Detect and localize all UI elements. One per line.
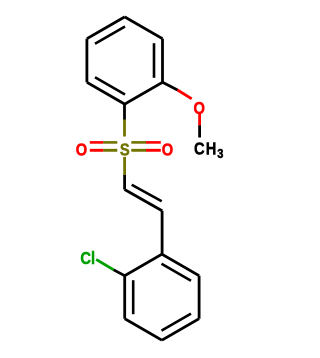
bond S-C7 carbon half (123, 175, 126, 190)
bond C4-S sulfur half (123, 120, 126, 137)
bond C4-S carbon half (123, 104, 126, 119)
atom O3 sulfonyl right oxygen label (162, 140, 173, 159)
atom O1 methoxy oxygen label (193, 99, 204, 118)
benzene ring B bond C12-C13 (bottom-left slant) (125, 319, 162, 341)
benzene ring B bond C13-C14 (left vertical, double) (123, 276, 126, 319)
benzene ring B bond C11-C12 (bottom-right slant, double) (162, 319, 199, 341)
bond S=O3 main line sulfur half (131, 149, 146, 152)
bond S=O3 main line oxygen half (146, 149, 161, 152)
svg-text:3: 3 (217, 146, 223, 161)
benzene ring A bond C6-C1 (top-left slant, double) (87, 17, 125, 39)
atom CH3 subscript 3 (217, 146, 223, 161)
benzene ring A bond C2-C3 (right vertical, double) (161, 39, 164, 83)
bond O1-CH3 carbon half (198, 125, 201, 137)
bond C14-Cl chlorine half (96, 259, 113, 269)
benzene ring B bond C9-C10 (top-right slant, double) (162, 254, 199, 276)
benzene ring B bond C10-C11 (right vertical) (198, 276, 201, 319)
atom Cl chlorine label (80, 249, 91, 268)
bond S=O2 main line oxygen half (90, 149, 104, 152)
bond S=O2 second line sulfur half (103, 141, 117, 144)
bond S=O3 second line sulfur half (131, 141, 146, 144)
bond C3-O1 oxygen half (178, 90, 192, 99)
svg-text:C: C (194, 139, 205, 158)
benzene ring A bond C2-C3 inner double line (153, 43, 156, 78)
svg-text:S: S (120, 140, 130, 159)
bond S=O3 second line oxygen half (146, 141, 161, 144)
svg-text:O: O (76, 140, 87, 159)
benzene ring B bond C9-C10 inner double line (162, 264, 192, 281)
bond S=O2 main line sulfur half (103, 149, 117, 152)
benzene ring A bond C3-C4 (bottom-right slant) (125, 82, 163, 104)
vinyl double bond C7=C8 second line (132, 185, 162, 202)
svg-text:l: l (91, 249, 95, 268)
svg-text:O: O (162, 140, 173, 159)
benzene ring B bond C11-C12 inner double line (162, 314, 192, 331)
benzene ring A bond C4-C5 inner double line (95, 77, 125, 94)
bond C8-C9 vertical (161, 211, 164, 254)
atom CH3 methyl label (194, 139, 205, 158)
vinyl double bond C7=C8 main line (125, 190, 163, 211)
bond S-C7 sulfur half (123, 157, 126, 175)
bond C14-Cl carbon half (114, 270, 125, 276)
bond S=O2 second line oxygen half (90, 141, 104, 144)
benzene ring A bond C4-C5 (bottom-left slant, double) (87, 82, 125, 104)
svg-text:O: O (193, 99, 204, 118)
atom O2 sulfonyl left oxygen label (76, 140, 87, 159)
benzene ring A bond C1-C2 (top-right slant) (125, 17, 163, 39)
svg-text:H: H (206, 139, 217, 158)
bond C3-O1 carbon half (163, 82, 178, 90)
atom S sulfonyl sulfur label (120, 140, 130, 159)
benzene ring A bond C6-C1 inner double line (95, 27, 125, 44)
benzene ring B bond C13-C14 inner double line (132, 280, 135, 314)
benzene ring B bond C14-C9 (top-left slant) (125, 254, 162, 276)
bond O1-CH3 oxygen half (198, 114, 201, 126)
svg-text:C: C (80, 249, 91, 268)
benzene ring A bond C5-C6 (left vertical) (86, 39, 89, 83)
